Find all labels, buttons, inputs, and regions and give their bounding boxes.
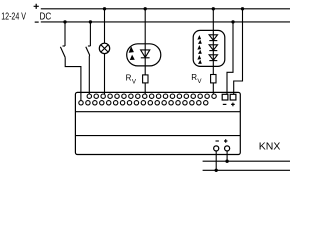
LED D1 emission arrows bbox=[129, 46, 134, 53]
terminal row top (input terminals) bbox=[87, 94, 216, 98]
device KNX binary input module outline bbox=[75, 92, 240, 154]
switch S1 contact wire bbox=[64, 22, 66, 46]
switch S1 blade bbox=[60, 47, 65, 58]
wire lamp feed bbox=[104, 9, 106, 43]
wire LED D2 feed bbox=[212, 9, 214, 75]
terminal row bottom (input terminals) bbox=[79, 101, 208, 105]
device divider line lower bbox=[75, 135, 240, 137]
svg-text:V: V bbox=[197, 78, 202, 85]
wire S1 to terminal bbox=[65, 57, 81, 101]
node LED D2 junction on +V rail bbox=[212, 7, 215, 10]
wire +V supply rail bbox=[41, 8, 290, 10]
label plus KNX terminal bbox=[224, 139, 227, 142]
wire LED D1 feed bbox=[144, 9, 146, 75]
node S2 junction on -V rail bbox=[89, 20, 92, 23]
switch S2 contact wire bbox=[89, 22, 91, 46]
LED D1 diode bbox=[141, 50, 150, 58]
LED D2 housing bbox=[193, 30, 225, 66]
wire RV2 to terminal bbox=[212, 83, 214, 94]
LED D2 diode 3 bbox=[209, 55, 217, 60]
wire S2 to terminal bbox=[88, 55, 90, 95]
minus polarity mark bbox=[35, 21, 39, 23]
node S1 junction on -V rail bbox=[63, 20, 66, 23]
switch S2 fixed contact tick bbox=[88, 45, 91, 47]
terminal square minus (supply) bbox=[222, 94, 228, 100]
resistor RV2 bbox=[211, 75, 216, 83]
node lamp junction on +V rail bbox=[103, 7, 106, 10]
LED D1 housing bbox=[127, 44, 161, 66]
svg-text:KNX: KNX bbox=[259, 141, 281, 153]
svg-text:DC: DC bbox=[40, 11, 52, 22]
node +V feed junction bbox=[241, 7, 244, 10]
plus polarity mark bbox=[34, 4, 39, 9]
LED D2 diode 2 emission arrows bbox=[197, 45, 201, 50]
svg-text:R: R bbox=[191, 73, 197, 82]
svg-text:V: V bbox=[132, 79, 137, 86]
label minus under square bbox=[223, 103, 227, 105]
wire +V to device plus terminal bbox=[234, 9, 243, 95]
wire lamp to terminal bbox=[104, 54, 106, 94]
label plus under square bbox=[231, 103, 235, 107]
node KNX plus junction bbox=[225, 160, 228, 163]
wire KNX minus to bus bbox=[215, 151, 217, 170]
device divider line upper bbox=[75, 111, 240, 113]
switch S2 blade bbox=[86, 47, 90, 55]
LED D2 diode 1 emission arrows bbox=[197, 35, 201, 40]
KNX bus line plus bbox=[203, 160, 290, 162]
svg-text:12-24 V: 12-24 V bbox=[1, 11, 26, 22]
wire KNX plus to bus bbox=[226, 151, 228, 161]
wire -V supply rail bbox=[41, 21, 290, 23]
resistor RV1 bbox=[143, 75, 148, 83]
svg-text:R: R bbox=[126, 74, 132, 83]
LED D2 diode 1 bbox=[209, 35, 217, 40]
KNX bus line minus bbox=[203, 169, 290, 171]
terminal square plus (supply) bbox=[230, 94, 236, 100]
label minus KNX terminal bbox=[216, 140, 219, 142]
node LED D1 junction on +V rail bbox=[144, 7, 147, 10]
KNX bus terminal plus bbox=[225, 146, 230, 151]
wire RV1 to terminal bbox=[144, 83, 146, 94]
wire -V to device minus terminal bbox=[227, 22, 233, 94]
LED D2 diode 3 emission arrows bbox=[197, 55, 201, 60]
switch S1 fixed contact tick bbox=[63, 45, 66, 47]
lamp E1 bbox=[99, 43, 109, 53]
KNX bus terminal minus bbox=[214, 146, 219, 151]
node -V feed junction bbox=[231, 20, 234, 23]
LED D2 diode 2 bbox=[209, 45, 217, 50]
node KNX minus junction bbox=[215, 169, 218, 172]
